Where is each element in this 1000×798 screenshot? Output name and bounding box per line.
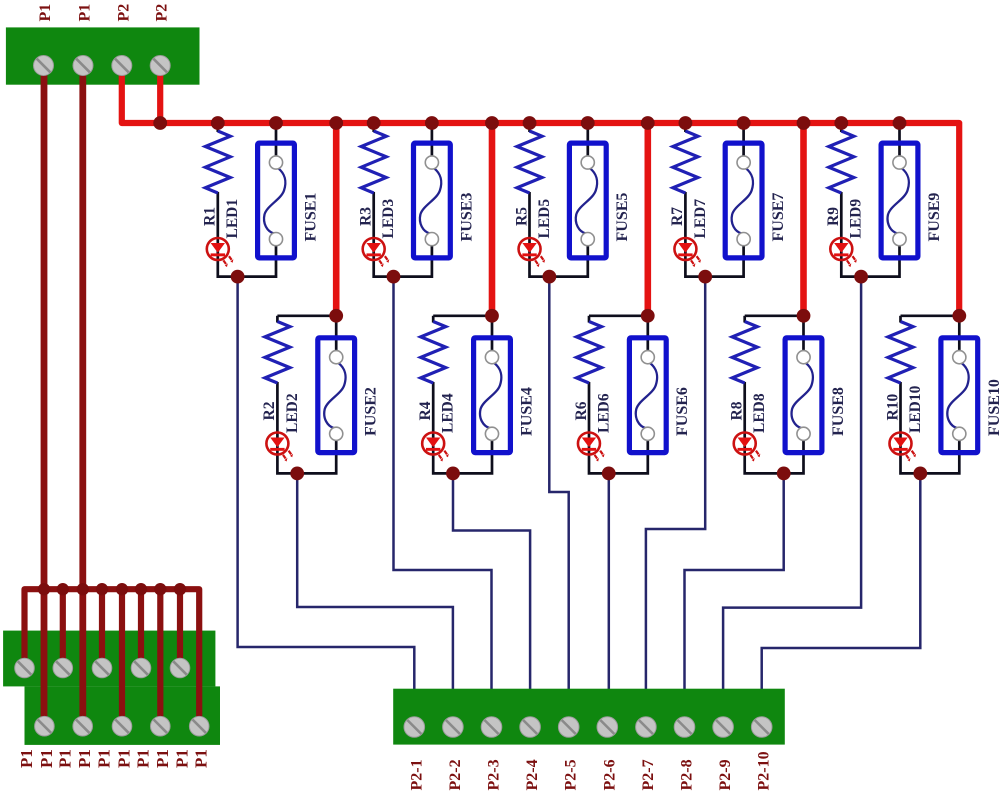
terminal block P1/P2 (top-left, 4-pin) xyxy=(6,27,200,84)
wire bus to R3 xyxy=(372,123,375,132)
svg-text:P2-8: P2-8 xyxy=(679,759,696,790)
wire P2 bus (red) xyxy=(122,66,959,316)
wire red feed to FUSE8 xyxy=(800,123,807,316)
svg-text:R3: R3 xyxy=(358,207,375,226)
svg-text:P2-3: P2-3 xyxy=(486,759,503,790)
svg-text:P1: P1 xyxy=(77,4,94,22)
wire feed to FUSE4 xyxy=(491,316,494,358)
svg-text:R4: R4 xyxy=(417,401,434,420)
fuse FUSE1 xyxy=(258,143,295,258)
wire R3/LED3 to node, FUSE3 to node xyxy=(374,192,432,277)
svg-text:P1: P1 xyxy=(153,749,172,768)
svg-text:LED9: LED9 xyxy=(848,199,865,239)
wire bus to R5 xyxy=(528,123,531,132)
wire P1 pin2 to bottom-left block xyxy=(79,66,86,727)
svg-text:LED1: LED1 xyxy=(224,199,241,239)
svg-text:P2-2: P2-2 xyxy=(447,759,464,790)
fuse FUSE10 xyxy=(941,338,978,453)
resistor R1 xyxy=(205,131,230,193)
node P1 bus junction x=180.0 xyxy=(174,583,186,595)
LED LED6 xyxy=(578,433,600,455)
svg-text:R10: R10 xyxy=(884,394,901,421)
LED LED2 xyxy=(266,433,288,455)
node bus/R7 xyxy=(679,116,693,130)
wire FUSE6 output to P2-6 xyxy=(608,473,611,689)
wire bus to R7 xyxy=(684,123,687,132)
node P1 bus junction x=160.3 xyxy=(154,583,166,595)
node bus/feed FUSE4 xyxy=(485,116,499,130)
LED LED9 xyxy=(830,238,852,260)
svg-text:LED10: LED10 xyxy=(907,385,924,433)
node feed/FUSE8 xyxy=(797,309,811,323)
svg-text:FUSE7: FUSE7 xyxy=(770,193,787,242)
svg-text:LED5: LED5 xyxy=(536,199,553,239)
node feed/FUSE4 xyxy=(485,309,499,323)
svg-text:LED8: LED8 xyxy=(751,393,768,433)
node output junction 7 xyxy=(698,270,712,284)
wire feed to R2 (top rail) xyxy=(277,314,336,317)
svg-text:P2: P2 xyxy=(154,4,171,22)
wire FUSE3 output to P2-3 xyxy=(394,277,492,690)
LED LED4 xyxy=(422,433,444,455)
LED LED1 xyxy=(207,238,229,260)
wire bus drop to upper screw x=62.8 xyxy=(60,589,66,668)
node output junction 10 xyxy=(913,467,927,481)
wire bus drop to lower screw x=122.0 xyxy=(119,589,125,726)
wire FUSE4 output to P2-4 xyxy=(453,473,530,689)
fuse FUSE6 xyxy=(629,338,666,453)
svg-text:P2-4: P2-4 xyxy=(524,759,541,790)
svg-text:FUSE5: FUSE5 xyxy=(614,193,631,242)
wire feed to FUSE2 xyxy=(335,316,338,358)
resistor R7 xyxy=(673,131,698,193)
LED LED10 xyxy=(890,433,912,455)
wire R10/LED10 to node, FUSE10 to node xyxy=(901,382,960,473)
svg-text:FUSE3: FUSE3 xyxy=(458,193,475,242)
svg-text:R1: R1 xyxy=(202,207,219,226)
screws bottom-left lower block xyxy=(35,716,55,736)
svg-text:P1: P1 xyxy=(37,4,54,22)
LED LED8 xyxy=(734,433,756,455)
svg-text:R7: R7 xyxy=(669,207,686,226)
svg-text:P1: P1 xyxy=(37,749,56,768)
resistor R4 xyxy=(421,322,446,384)
wire R5/LED5 to node, FUSE5 to node xyxy=(530,192,588,277)
fuse FUSE9 xyxy=(881,143,918,258)
node bus/feed FUSE2 xyxy=(329,116,343,130)
wire feed to R4 (top rail) xyxy=(433,314,492,317)
wire red feed to FUSE4 xyxy=(489,123,496,316)
wire bus to R9 xyxy=(840,123,843,132)
node output junction 6 xyxy=(602,467,616,481)
svg-text:LED4: LED4 xyxy=(440,393,457,433)
terminal block P1 (bottom-left lower, 5-pin) xyxy=(25,686,221,745)
wire bus drop to lower screw x=160.3 xyxy=(157,589,163,726)
node feed/FUSE10 xyxy=(952,309,966,323)
svg-text:FUSE9: FUSE9 xyxy=(926,193,943,242)
fuse FUSE2 xyxy=(318,338,355,453)
svg-text:P1: P1 xyxy=(17,749,36,768)
svg-text:P2: P2 xyxy=(115,4,132,22)
node bus/FUSE3 xyxy=(425,116,439,130)
wire R7/LED7 to node, FUSE7 to node xyxy=(685,192,743,277)
svg-text:P1: P1 xyxy=(95,749,114,768)
svg-text:P1: P1 xyxy=(115,749,134,768)
node feed/FUSE6 xyxy=(641,309,655,323)
LED LED5 xyxy=(519,238,541,260)
wire FUSE10 output to P2-10 xyxy=(762,473,921,689)
svg-text:P1: P1 xyxy=(134,749,153,768)
wire bus to FUSE9 xyxy=(898,123,901,164)
wire feed to FUSE8 xyxy=(802,316,805,358)
screws top-left block xyxy=(34,56,54,76)
resistor R10 xyxy=(888,322,913,384)
LED LED3 xyxy=(363,238,385,260)
node P1 bus junction x=102.0 xyxy=(96,583,108,595)
svg-text:P2-1: P2-1 xyxy=(408,759,425,790)
svg-text:R8: R8 xyxy=(729,401,746,420)
svg-text:P1: P1 xyxy=(173,749,192,768)
node bus/FUSE1 xyxy=(269,116,283,130)
wire FUSE8 output to P2-8 xyxy=(685,473,784,689)
wire R1/LED1 to node, FUSE1 to node xyxy=(218,192,276,277)
wire FUSE5 output to P2-5 xyxy=(549,277,568,690)
svg-text:FUSE4: FUSE4 xyxy=(519,387,536,436)
svg-text:P2-7: P2-7 xyxy=(640,759,657,790)
svg-text:R9: R9 xyxy=(825,207,842,226)
LED LED7 xyxy=(674,238,696,260)
wire P1 distribution bus (maroon) xyxy=(25,589,200,726)
resistor R2 xyxy=(265,322,290,384)
wire P1 pin1 to bottom-left block xyxy=(41,66,48,727)
svg-text:LED6: LED6 xyxy=(595,393,612,433)
node output junction 1 xyxy=(231,270,245,284)
node P2 pin4 junction xyxy=(153,116,167,130)
terminal block P2-1..P2-10 (bottom-centre, 10-pin) xyxy=(393,689,785,745)
resistor R5 xyxy=(517,131,542,193)
svg-text:FUSE6: FUSE6 xyxy=(674,387,691,436)
svg-text:FUSE1: FUSE1 xyxy=(303,193,320,242)
wire feed to R6 (top rail) xyxy=(589,314,648,317)
svg-text:P1: P1 xyxy=(192,749,211,768)
svg-text:R6: R6 xyxy=(573,401,590,420)
wire FUSE9 output to P2-9 xyxy=(723,277,861,690)
node P1 bus junction x=141.0 xyxy=(135,583,147,595)
screws bottom-left upper block xyxy=(15,658,35,678)
svg-text:FUSE8: FUSE8 xyxy=(830,387,847,436)
node bus/feed FUSE8 xyxy=(797,116,811,130)
svg-text:FUSE10: FUSE10 xyxy=(986,379,1000,436)
node output junction 9 xyxy=(854,270,868,284)
wire R8/LED8 to node, FUSE8 to node xyxy=(745,382,804,473)
node P1 bus junction x=62.8 xyxy=(57,583,69,595)
node P1 bus junction x=82.8 xyxy=(77,583,89,595)
svg-text:R2: R2 xyxy=(261,401,278,420)
screws bottom-centre block xyxy=(404,717,425,738)
wire bus to R1 xyxy=(216,123,219,132)
node bus/FUSE7 xyxy=(737,116,751,130)
wire red feed to FUSE6 xyxy=(644,123,651,316)
wire bus drop to upper screw x=141.0 xyxy=(138,589,144,668)
fuse FUSE5 xyxy=(569,143,606,258)
svg-text:LED3: LED3 xyxy=(380,199,397,239)
node bus/R5 xyxy=(523,116,537,130)
svg-text:P2-10: P2-10 xyxy=(756,751,773,790)
resistor R9 xyxy=(829,131,854,193)
svg-text:LED2: LED2 xyxy=(284,393,301,433)
terminal block P1 (bottom-left upper, 5-pin) xyxy=(3,631,215,687)
fuse FUSE7 xyxy=(725,143,762,258)
wire feed to R10 (top rail) xyxy=(901,314,960,317)
wire bus to FUSE7 xyxy=(742,123,745,164)
wire FUSE7 output to P2-7 xyxy=(646,277,705,690)
wire feed to FUSE6 xyxy=(646,316,649,358)
wire R9/LED9 to node, FUSE9 to node xyxy=(841,192,899,277)
node output junction 3 xyxy=(387,270,401,284)
wire FUSE2 output to P2-2 xyxy=(297,473,453,689)
svg-text:P1: P1 xyxy=(55,749,74,768)
node bus/FUSE9 xyxy=(893,116,907,130)
wire bus drop to upper screw x=102.0 xyxy=(99,589,105,668)
wire FUSE1 output to P2-1 xyxy=(238,277,415,690)
node P1 bus junction x=44.0 xyxy=(38,583,50,595)
node bus/R9 xyxy=(834,116,848,130)
resistor R8 xyxy=(732,322,757,384)
node output junction 8 xyxy=(777,467,791,481)
svg-text:P2-5: P2-5 xyxy=(563,759,580,790)
node output junction 2 xyxy=(290,467,304,481)
wire bus to FUSE5 xyxy=(586,123,589,164)
node bus/feed FUSE6 xyxy=(641,116,655,130)
svg-text:P2-9: P2-9 xyxy=(717,759,734,790)
wire bus drop to upper screw x=180.0 xyxy=(177,589,183,668)
wire R2/LED2 to node, FUSE2 to node xyxy=(277,382,336,473)
svg-text:R5: R5 xyxy=(513,207,530,226)
wire feed to FUSE10 xyxy=(958,316,961,358)
resistor R6 xyxy=(577,322,602,384)
node output junction 4 xyxy=(446,467,460,481)
svg-text:P2-6: P2-6 xyxy=(601,759,618,790)
svg-text:FUSE2: FUSE2 xyxy=(363,387,380,436)
wire P2 pin4 to bus xyxy=(157,66,163,124)
node feed/FUSE2 xyxy=(329,309,343,323)
wire bus to FUSE3 xyxy=(431,123,434,164)
svg-text:LED7: LED7 xyxy=(692,199,709,239)
node output junction 5 xyxy=(542,270,556,284)
wire feed to R8 (top rail) xyxy=(745,314,804,317)
resistor R3 xyxy=(361,131,386,193)
node P1 bus junction x=122.0 xyxy=(116,583,128,595)
node bus/R1 xyxy=(211,116,225,130)
node bus/FUSE5 xyxy=(581,116,595,130)
wire R6/LED6 to node, FUSE6 to node xyxy=(589,382,648,473)
fuse FUSE4 xyxy=(474,338,511,453)
node bus/R3 xyxy=(367,116,381,130)
svg-text:P1: P1 xyxy=(75,749,94,768)
fuse FUSE3 xyxy=(414,143,451,258)
wire bus to FUSE1 xyxy=(275,123,278,164)
wire red feed to FUSE2 xyxy=(333,123,340,316)
wire R4/LED4 to node, FUSE4 to node xyxy=(433,382,492,473)
fuse FUSE8 xyxy=(785,338,822,453)
